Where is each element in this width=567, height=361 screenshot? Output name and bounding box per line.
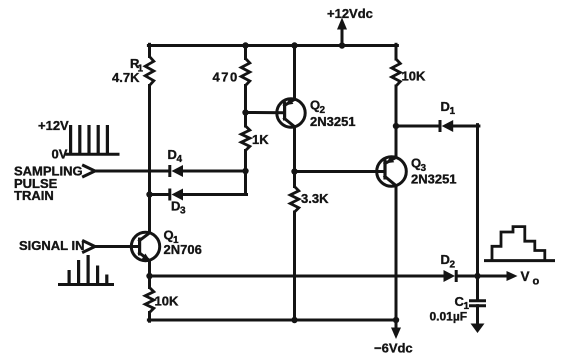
label Q1 bbox=[164, 228, 180, 247]
ground bbox=[471, 324, 485, 334]
label -6Vdc bbox=[374, 341, 413, 356]
wire bottom rail bbox=[148, 319, 397, 322]
svg-text:0.01µF: 0.01µF bbox=[430, 309, 468, 323]
svg-text:D: D bbox=[441, 99, 450, 114]
label Q3 bbox=[411, 156, 427, 175]
diode D1 bbox=[439, 120, 454, 132]
diode D3 bbox=[168, 189, 183, 201]
label D4 bbox=[168, 147, 183, 165]
label 2N706 bbox=[164, 242, 202, 257]
svg-text:SIGNAL IN: SIGNAL IN bbox=[19, 238, 85, 253]
icon sampling pulse train waveform bbox=[67, 125, 118, 154]
transistor Q1 bbox=[131, 232, 159, 260]
wire 1K bottom to diode node bbox=[242, 151, 248, 195]
svg-text:D: D bbox=[441, 252, 450, 267]
svg-text:V: V bbox=[521, 269, 530, 284]
diode D2 bbox=[444, 270, 458, 282]
icon staircase output waveform bbox=[486, 227, 554, 261]
diode D4 bbox=[168, 165, 183, 177]
svg-text:470: 470 bbox=[213, 70, 239, 85]
svg-text:1: 1 bbox=[450, 106, 456, 117]
wire D3 line bbox=[146, 191, 246, 197]
svg-text:10K: 10K bbox=[155, 294, 179, 309]
wire D1 to right vertical bbox=[453, 125, 479, 128]
wire right vertical from rail bbox=[395, 44, 398, 59]
label R1 bbox=[130, 56, 144, 75]
wire C1 to ground bbox=[476, 306, 479, 326]
resistor 1K bbox=[241, 126, 250, 151]
svg-text:+12Vdc: +12Vdc bbox=[327, 6, 373, 21]
capacitor C1 bbox=[471, 301, 485, 306]
wire 10K to bottom rail bbox=[148, 313, 151, 322]
wire +12V top rail bbox=[148, 44, 397, 47]
svg-text:+12V: +12V bbox=[38, 118, 69, 133]
node -6Vdc supply arrow bbox=[391, 320, 401, 339]
wire signal input line bbox=[95, 245, 140, 248]
wire Q3 collector down to rail bbox=[393, 186, 399, 324]
input arrow signal in bbox=[84, 241, 96, 252]
svg-text:2N3251: 2N3251 bbox=[411, 171, 457, 186]
node +12Vdc supply arrow bbox=[337, 18, 347, 49]
svg-text:0V: 0V bbox=[52, 147, 68, 162]
wire output line from Q1 emitter bbox=[150, 275, 444, 278]
wire Q2 base bbox=[246, 111, 285, 114]
svg-text:D: D bbox=[168, 147, 177, 162]
wire right vertical down to output node bbox=[476, 125, 479, 301]
resistor 3.3K bbox=[290, 187, 299, 213]
wire 10K to Q3 emitter node bbox=[393, 86, 399, 157]
svg-text:D: D bbox=[171, 199, 180, 214]
resistor 10K upper right bbox=[392, 59, 401, 86]
resistor R1 bbox=[145, 57, 154, 86]
wire 470 branch upper lead bbox=[242, 42, 248, 58]
svg-text:4: 4 bbox=[177, 154, 183, 165]
transistor Q3 bbox=[377, 156, 407, 186]
wire sampling pulse input line bbox=[95, 170, 247, 173]
output arrow Vo bbox=[478, 271, 518, 281]
label SAMPLING PULSE TRAIN bbox=[14, 163, 83, 203]
resistor 10K lower left bbox=[145, 288, 154, 313]
label SIGNAL IN bbox=[19, 238, 85, 253]
wire D2 to output node bbox=[458, 273, 481, 279]
label 2N3251 lower bbox=[411, 171, 457, 186]
svg-text:2: 2 bbox=[450, 260, 456, 271]
wire left vertical top bbox=[148, 44, 151, 56]
label 2N3251 upper bbox=[310, 114, 356, 129]
label 4.7K bbox=[112, 70, 140, 85]
label 10K upper bbox=[402, 69, 426, 84]
svg-text:3: 3 bbox=[180, 206, 186, 217]
wire 3.3K to bottom rail bbox=[291, 212, 297, 323]
icon sampled signal waveform bbox=[60, 255, 113, 285]
input arrow sampling pulse train bbox=[84, 166, 96, 177]
label 1K bbox=[252, 132, 269, 147]
svg-text:2N3251: 2N3251 bbox=[310, 114, 356, 129]
label Q2 bbox=[310, 97, 326, 116]
svg-text:TRAIN: TRAIN bbox=[14, 188, 54, 203]
wire Q1 emitter to output node bbox=[146, 261, 152, 288]
label 10K lower bbox=[155, 294, 179, 309]
label D1 bbox=[441, 99, 456, 117]
svg-text:2N706: 2N706 bbox=[164, 242, 202, 257]
svg-text:10K: 10K bbox=[402, 69, 426, 84]
label 470 bbox=[213, 70, 239, 85]
label +12V bbox=[38, 118, 69, 133]
wire 470 bottom to base node bbox=[242, 86, 248, 127]
label C1 bbox=[455, 294, 470, 312]
label +12Vdc bbox=[327, 6, 373, 21]
label 0.01uF bbox=[430, 309, 468, 323]
wire Q2 collector down bbox=[291, 127, 297, 187]
resistor 470 bbox=[241, 59, 250, 86]
wire left vertical mid (R1 to Q1 collector) bbox=[148, 86, 151, 234]
svg-text:4.7K: 4.7K bbox=[112, 70, 140, 85]
label D2 bbox=[441, 252, 456, 271]
label D3 bbox=[171, 199, 186, 217]
label Vo bbox=[521, 269, 540, 288]
svg-text:3.3K: 3.3K bbox=[301, 191, 329, 206]
wire D1 line left bbox=[396, 125, 439, 128]
label 0V bbox=[52, 147, 68, 162]
transistor Q2 bbox=[277, 98, 305, 127]
svg-text:−6Vdc: −6Vdc bbox=[374, 341, 413, 356]
svg-text:1K: 1K bbox=[252, 132, 269, 147]
label 3.3K bbox=[301, 191, 329, 206]
wire Q2 emitter to rail bbox=[291, 42, 297, 99]
wire Q3 base line bbox=[295, 170, 386, 173]
svg-text:o: o bbox=[533, 276, 540, 288]
